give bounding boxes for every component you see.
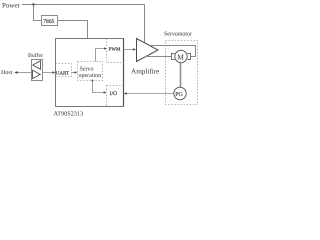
buffer block xyxy=(32,60,43,81)
wire power rail horizontal xyxy=(22,4,145,6)
svg-text:Servomotor: Servomotor xyxy=(164,31,192,38)
svg-text:PG: PG xyxy=(175,92,183,98)
svg-text:AT90S2313: AT90S2313 xyxy=(54,110,84,117)
svg-text:PWM: PWM xyxy=(109,47,122,53)
svg-text:7805: 7805 xyxy=(43,19,54,25)
wire servo operation to I/O with junction dot and arrow xyxy=(92,80,94,82)
encoder PG circle xyxy=(174,87,186,99)
motor M right terminal xyxy=(188,54,191,60)
servomotor enclosure (dashed) xyxy=(166,41,198,105)
node junction dot on power rail xyxy=(32,3,34,5)
wire buffer to host with left arrow xyxy=(18,72,32,74)
motor shaft xyxy=(180,63,182,88)
svg-text:Servo: Servo xyxy=(80,67,94,73)
svg-text:Host: Host xyxy=(1,70,13,76)
buffer triangle lower (points right) xyxy=(33,70,41,78)
svg-text:Power: Power xyxy=(2,2,21,10)
motor M circle xyxy=(175,50,187,62)
wire amplifier upper output to motor right terminal xyxy=(150,46,196,57)
motor M left terminal xyxy=(172,54,175,60)
wire servo operation to PWM with arrow xyxy=(96,49,105,62)
wire amplifier lower output to motor left terminal xyxy=(146,56,172,58)
wire regulator output to MCU top xyxy=(58,21,88,39)
svg-text:I/O: I/O xyxy=(110,91,117,97)
buffer triangle upper (points left) xyxy=(33,61,41,69)
svg-text:M: M xyxy=(177,52,184,61)
svg-text:operation: operation xyxy=(79,73,102,79)
PWM block xyxy=(107,39,124,63)
wire MCU right edge emphasis xyxy=(123,39,125,107)
svg-text:Buffer: Buffer xyxy=(28,52,43,59)
wire power drop to amplifier xyxy=(144,5,146,44)
wire encoder PG feedback to I/O with left arrow xyxy=(127,93,174,95)
wire PWM output to amplifier with arrow xyxy=(124,49,134,51)
svg-text:Amplifire: Amplifire xyxy=(131,68,159,76)
wire junction to regulator input xyxy=(34,5,42,21)
servo operation block xyxy=(78,62,103,81)
wire buffer to UART with right arrow xyxy=(43,72,53,74)
svg-text:UART: UART xyxy=(56,71,69,77)
UART block xyxy=(56,64,72,77)
I/O block xyxy=(107,86,124,107)
wire UART to servo operation with arrow xyxy=(72,72,75,74)
regulator 7805 xyxy=(42,16,58,26)
op-amp amplifier triangle xyxy=(137,39,159,62)
MCU AT90S2313 box xyxy=(56,39,124,107)
